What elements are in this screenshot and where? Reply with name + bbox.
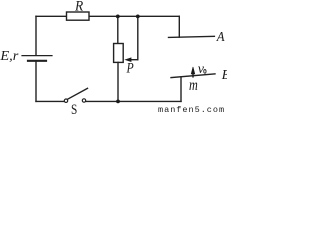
svg-text:B: B bbox=[222, 68, 227, 83]
svg-text:E,r: E,r bbox=[0, 48, 19, 63]
svg-text:A: A bbox=[216, 30, 225, 45]
svg-text:P: P bbox=[126, 60, 134, 76]
svg-text:R: R bbox=[74, 0, 83, 15]
svg-text:v: v bbox=[198, 62, 205, 77]
svg-text:m: m bbox=[189, 77, 198, 94]
svg-text:manfen5.com: manfen5.com bbox=[158, 105, 225, 114]
svg-text:S: S bbox=[71, 102, 77, 114]
